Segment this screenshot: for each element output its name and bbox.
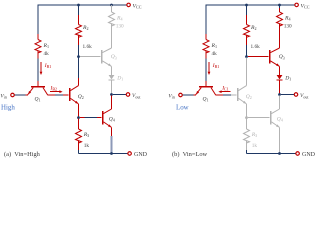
svg-text:4k: 4k: [212, 51, 218, 57]
wire: R1 to Q1 base (a): [37, 59, 39, 82]
resistor R3 1k (b): [246, 119, 248, 129]
svg-text:1k: 1k: [84, 143, 90, 149]
wire: ground rail (a): [79, 153, 128, 155]
wire: left rail from VCC to R1 (b): [205, 4, 207, 34]
wire: VCC top rail (a): [38, 4, 127, 6]
svg-text:Vin: Vin: [0, 94, 7, 100]
wire: Q2 emitter down to lower junction (b): [246, 104, 248, 117]
svg-text:IB2: IB2: [50, 85, 58, 91]
svg-text:1.6k: 1.6k: [251, 44, 261, 50]
transistor Q1 (a): [31, 86, 45, 88]
svg-text:4k: 4k: [44, 51, 50, 57]
wire: Q1 collector to Q2 base (b): [216, 94, 223, 96]
node: R2 top junction (b): [245, 4, 248, 7]
wire: Q4 emitter to ground rail (a): [111, 127, 113, 136]
wire: D1 to output node (a): [111, 80, 113, 93]
svg-text:R3: R3: [83, 132, 90, 138]
resistor R4 130 (a): [111, 5, 113, 12]
svg-text:IB1: IB1: [44, 63, 52, 69]
wire: junction to Q3 base (b): [248, 56, 269, 58]
diode D1 (b): [277, 75, 283, 79]
node: Q4 emitter ground junction (b): [278, 152, 281, 155]
resistor R1 4k (b): [205, 34, 207, 40]
wire: Q1 collector to Q2 base (a): [48, 94, 55, 96]
wire: junction to Q3 base (a): [80, 56, 101, 58]
svg-text:R4: R4: [116, 16, 123, 22]
svg-text:Vout: Vout: [132, 93, 141, 99]
wire: Vin to Q1 emitter (a): [14, 94, 25, 96]
resistor R1 4k (a): [37, 34, 39, 40]
svg-text:GND: GND: [134, 152, 148, 158]
wire: Q4 collector to output node (b): [279, 96, 281, 109]
node: Q2 emitter / R3 / Q4 base junction (b): [245, 116, 248, 119]
svg-text:IC1: IC1: [221, 85, 229, 91]
wire: junction to Q4 base (a): [80, 117, 85, 119]
svg-text:1.6k: 1.6k: [83, 44, 93, 50]
node: R2 top junction (a): [77, 4, 80, 7]
node: R2 / Q2 collector / Q3 base junction (b): [245, 55, 248, 58]
svg-text:IB1: IB1: [212, 63, 220, 69]
transistor Q4 (a): [102, 111, 104, 125]
svg-text:R1: R1: [211, 43, 218, 49]
svg-text:Low: Low: [176, 104, 189, 111]
wire: left rail from VCC to R1 (a): [37, 4, 39, 34]
transistor Q3 (a): [101, 50, 103, 64]
terminal GND (a): [128, 152, 132, 156]
wire: D1 to output node (b): [279, 80, 281, 93]
svg-text:Q1: Q1: [203, 97, 209, 103]
svg-text:Q3: Q3: [279, 54, 285, 60]
svg-text:R3: R3: [251, 132, 258, 138]
svg-text:R4: R4: [284, 16, 291, 22]
wire: Q2 emitter down to lower junction (a): [78, 104, 80, 117]
current arrow IB1 (b): [208, 62, 210, 72]
transistor Q2 (b): [237, 88, 239, 101]
transistor Q2 (a): [69, 88, 71, 101]
svg-text:VCC: VCC: [133, 4, 142, 10]
svg-text:High: High: [1, 104, 15, 111]
terminal VCC (a): [127, 3, 131, 7]
node: R4 top junction (a): [110, 4, 113, 7]
terminal GND (b): [296, 152, 300, 156]
svg-text:GND: GND: [302, 152, 316, 158]
wire: Q3 emitter to D1 (a): [111, 66, 113, 75]
wire: Q3 emitter to D1 (b): [279, 66, 281, 75]
transistor Q3 (b): [269, 50, 271, 64]
svg-text:(a) Vin=High: (a) Vin=High: [4, 151, 41, 158]
svg-text:1k: 1k: [252, 143, 258, 149]
svg-text:Q2: Q2: [246, 94, 252, 100]
node: Q2 emitter / R3 / Q4 base junction (a): [77, 116, 80, 119]
current arrow IB2 (a): [50, 91, 60, 93]
svg-text:Vin: Vin: [168, 94, 175, 100]
wire: Q4 emitter to ground rail (b): [279, 127, 281, 153]
wire: Vin to Q1 emitter (b): [182, 94, 193, 96]
svg-text:130: 130: [284, 24, 292, 30]
svg-text:D1: D1: [116, 75, 123, 81]
wire: Q3 collector to R4 (b): [279, 24, 281, 48]
wire: output node to Vout (b): [281, 94, 294, 96]
current arrow IB1 (a): [40, 62, 42, 72]
svg-text:Q4: Q4: [109, 117, 115, 123]
wire: output node to Vout (a): [113, 94, 126, 96]
node: output junction (b): [278, 93, 281, 96]
terminal Vin (b): [179, 93, 183, 97]
wire: VCC top rail (b): [206, 4, 295, 6]
svg-text:Q2: Q2: [78, 94, 84, 100]
terminal Vout (a): [126, 93, 130, 97]
terminal VCC (b): [295, 3, 299, 7]
current arrow IC1 (b): [221, 91, 230, 93]
svg-text:D1: D1: [284, 75, 291, 81]
svg-text:VCC: VCC: [301, 4, 310, 10]
wire: Q4 collector to output node (a): [111, 96, 113, 109]
wire: R1 to Q1 base (b): [205, 59, 207, 82]
resistor R3 1k (a): [78, 119, 80, 129]
wire: ground rail (b): [247, 153, 296, 155]
terminal Vout (b): [294, 93, 298, 97]
resistor R2 1.6k (a): [78, 5, 80, 15]
terminal Vin (a): [11, 93, 15, 97]
wire: Q2 collector to R2 junction (b): [246, 58, 248, 86]
node: R2 / Q2 collector / Q3 base junction (a): [77, 55, 80, 58]
svg-text:R2: R2: [82, 25, 89, 31]
node: output junction (a): [110, 93, 113, 96]
svg-text:R2: R2: [250, 25, 257, 31]
diode D1 (a): [109, 75, 115, 79]
transistor Q1 (b): [199, 86, 213, 88]
transistor Q4 (b): [270, 111, 272, 125]
resistor R4 130 (b): [279, 5, 281, 8]
wire: Q3 collector to R4 (a): [111, 24, 113, 48]
resistor R2 1.6k (b): [246, 5, 248, 15]
wire: junction to Q4 base (b): [248, 117, 270, 119]
svg-text:R1: R1: [43, 43, 50, 49]
svg-text:(b) Vin=Low: (b) Vin=Low: [172, 151, 208, 158]
svg-text:Q1: Q1: [35, 97, 41, 103]
svg-text:130: 130: [116, 24, 124, 30]
svg-text:Vout: Vout: [300, 93, 309, 99]
node: Q4 emitter ground junction (a): [110, 152, 113, 155]
svg-text:Q4: Q4: [277, 117, 283, 123]
node: R4 top junction (b): [278, 4, 281, 7]
svg-text:Q3: Q3: [111, 54, 117, 60]
wire: Q2 collector to R2 junction (a): [78, 78, 80, 86]
